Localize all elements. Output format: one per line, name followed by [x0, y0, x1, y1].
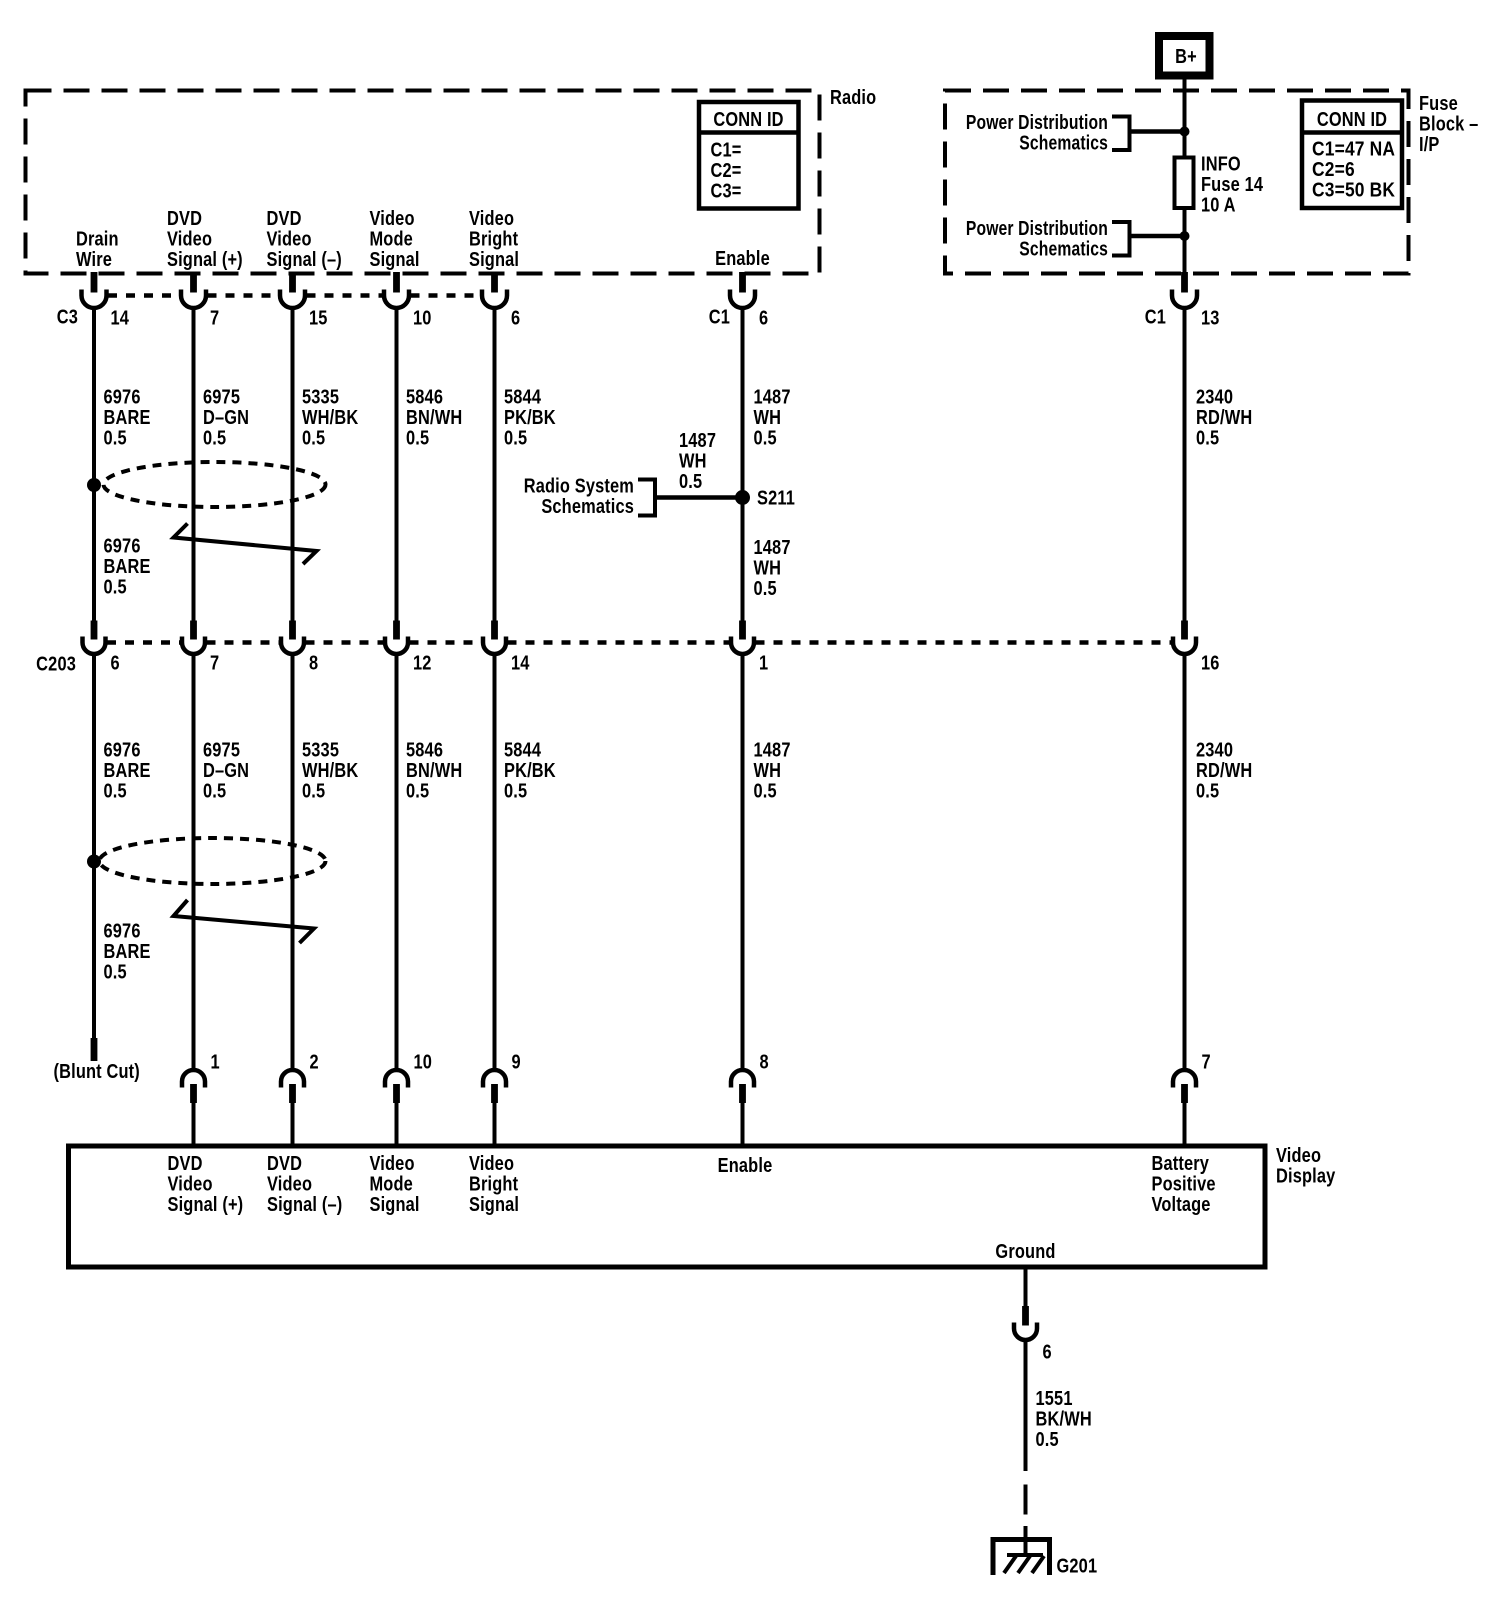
- fuse INFO Fuse 14 10 A: [1175, 152, 1264, 216]
- ground symbol G201: [993, 1540, 1050, 1576]
- wire into video display (pin 8): [741, 1103, 745, 1148]
- wire battery feed from B+: [1183, 78, 1187, 157]
- svg-text:14: 14: [111, 306, 130, 329]
- wire 5844 PK/BK (lower run): [493, 655, 497, 1069]
- power symbol B+: [1159, 36, 1210, 76]
- connector ground pin 6: [1022, 1306, 1029, 1326]
- svg-text:Signal (+): Signal (+): [168, 1192, 244, 1215]
- connector C203 pin 16: [1181, 621, 1188, 640]
- connector C3 pin 15 (dvd-): [289, 272, 296, 293]
- svg-text:Signal: Signal: [370, 1192, 420, 1215]
- connector video display pin 9: [483, 1070, 506, 1088]
- svg-text:0.5: 0.5: [754, 779, 777, 802]
- svg-text:0.5: 0.5: [754, 426, 777, 449]
- svg-text:Signal (–): Signal (–): [267, 247, 342, 270]
- svg-text:0.5: 0.5: [754, 576, 777, 599]
- svg-text:Enable: Enable: [715, 246, 770, 269]
- wire 2340 RD/WH battery (lower run): [1183, 655, 1187, 1069]
- component box Video Display: [69, 1146, 1266, 1267]
- ground wire from video display: [1024, 1267, 1028, 1307]
- svg-text:8: 8: [309, 651, 318, 674]
- svg-text:7: 7: [1202, 1050, 1211, 1073]
- wire 5844 PK/BK (upper run): [493, 309, 497, 622]
- svg-text:16: 16: [1201, 651, 1220, 674]
- connector C3 pin 7 (dvd+): [190, 272, 197, 293]
- svg-text:1: 1: [211, 1050, 220, 1073]
- svg-text:10 A: 10 A: [1201, 193, 1236, 216]
- shield arrow (lower): [174, 900, 315, 943]
- svg-text:Signal (+): Signal (+): [167, 247, 243, 270]
- svg-text:Display: Display: [1276, 1164, 1336, 1187]
- connector C203 pin 12: [393, 621, 400, 640]
- connector C3 pin 6 (bright): [491, 272, 498, 293]
- wire into video display (pin 1): [192, 1103, 196, 1148]
- svg-text:1: 1: [759, 651, 768, 674]
- svg-text:S211: S211: [757, 486, 795, 509]
- svg-text:B+: B+: [1175, 44, 1197, 67]
- CONN ID table (Fuse Block): [1302, 101, 1402, 209]
- connector C203 pin 1: [739, 621, 746, 640]
- svg-text:0.5: 0.5: [302, 779, 325, 802]
- CONN ID table (Radio): [699, 102, 799, 209]
- svg-text:Schematics: Schematics: [541, 494, 634, 517]
- wire 5335 WH/BK (lower run): [291, 655, 295, 1069]
- svg-text:0.5: 0.5: [104, 426, 127, 449]
- wire 1487 WH enable (upper run): [741, 309, 745, 622]
- svg-text:6: 6: [111, 651, 120, 674]
- component box Radio: [26, 91, 820, 274]
- pin numbers C3 row: [111, 306, 521, 329]
- wire into video display (pin 7): [1183, 1103, 1187, 1148]
- svg-text:Schematics: Schematics: [1019, 131, 1108, 155]
- wire to S-point (lower): [1130, 234, 1185, 239]
- svg-text:0.5: 0.5: [104, 960, 127, 983]
- svg-text:0.5: 0.5: [504, 426, 527, 449]
- wire 1551 BK/WH: [1024, 1342, 1028, 1472]
- connector video display pin 1: [182, 1070, 205, 1088]
- connector C203 pin 7: [190, 621, 197, 640]
- connector chain C3: [108, 293, 180, 298]
- connector chain C203: [107, 640, 181, 645]
- wire 5335 WH/BK (upper run): [291, 309, 295, 622]
- svg-text:C1=47 NA: C1=47 NA: [1312, 138, 1395, 161]
- junction drain/shield (lower): [87, 855, 101, 869]
- drain wire 6976 BARE (lower run, blunt cut): [92, 655, 96, 1038]
- connector video display pin 7: [1173, 1070, 1196, 1088]
- svg-text:6: 6: [759, 306, 768, 329]
- svg-text:Signal: Signal: [469, 247, 519, 270]
- wire between fuse and C1 connector: [1183, 209, 1187, 272]
- svg-text:0.5: 0.5: [406, 779, 429, 802]
- svg-text:Signal (–): Signal (–): [267, 1192, 342, 1215]
- svg-text:0.5: 0.5: [203, 779, 226, 802]
- wire 5846 BN/WH (lower run): [395, 655, 399, 1069]
- svg-text:Radio: Radio: [830, 85, 876, 108]
- pin numbers C203 row: [111, 651, 1220, 674]
- svg-text:0.5: 0.5: [1196, 426, 1219, 449]
- svg-text:Voltage: Voltage: [1152, 1192, 1211, 1215]
- connector video display pin 10: [385, 1070, 408, 1088]
- svg-text:9: 9: [512, 1050, 521, 1073]
- wire to splice S211: [655, 495, 743, 500]
- shield ellipse (lower): [100, 838, 326, 884]
- splice S211: [735, 490, 750, 505]
- svg-text:14: 14: [511, 651, 530, 674]
- svg-text:7: 7: [210, 651, 219, 674]
- svg-text:8: 8: [760, 1050, 769, 1073]
- svg-text:C3: C3: [57, 305, 78, 328]
- wire 6975 D-GN (upper run): [192, 309, 196, 622]
- svg-text:Schematics: Schematics: [1019, 237, 1108, 261]
- svg-text:0.5: 0.5: [104, 779, 127, 802]
- note Power Distribution Schematics (lower): [966, 216, 1130, 260]
- svg-text:CONN ID: CONN ID: [713, 107, 783, 130]
- pin numbers video display row: [211, 1050, 1211, 1073]
- connector C203 pin 8: [289, 621, 296, 640]
- svg-text:I/P: I/P: [1419, 132, 1440, 155]
- svg-text:0.5: 0.5: [679, 469, 702, 492]
- wire 6975 D-GN (lower run): [192, 655, 196, 1069]
- wire 5846 BN/WH (upper run): [395, 309, 399, 622]
- svg-text:Signal: Signal: [370, 247, 420, 270]
- component box Fuse Block - I/P: [945, 91, 1409, 274]
- junction (upper power distribution): [1180, 127, 1190, 137]
- svg-text:0.5: 0.5: [1196, 779, 1219, 802]
- svg-text:15: 15: [309, 306, 328, 329]
- svg-text:C2=6: C2=6: [1312, 159, 1355, 182]
- note Radio System Schematics: [524, 474, 655, 518]
- wire into video display (pin 10): [395, 1103, 399, 1148]
- connector C3 pin 14 (drain): [91, 272, 98, 293]
- svg-text:10: 10: [413, 306, 432, 329]
- svg-text:(Blunt Cut): (Blunt Cut): [54, 1059, 140, 1082]
- wire 1551 continuation (dashed): [1024, 1485, 1028, 1515]
- svg-text:0.5: 0.5: [1036, 1427, 1059, 1450]
- junction (lower power distribution): [1180, 231, 1190, 241]
- wire into ground symbol: [1024, 1526, 1028, 1556]
- svg-text:13: 13: [1201, 306, 1220, 329]
- svg-text:12: 12: [413, 651, 432, 674]
- wire into video display (pin 9): [493, 1103, 497, 1148]
- svg-text:0.5: 0.5: [203, 426, 226, 449]
- svg-text:0.5: 0.5: [504, 779, 527, 802]
- svg-text:0.5: 0.5: [302, 426, 325, 449]
- junction drain/shield (upper): [87, 478, 101, 492]
- svg-text:C203: C203: [36, 652, 76, 675]
- connector C1 fuse block pin 13: [1181, 272, 1188, 293]
- shield ellipse (upper): [104, 462, 326, 507]
- connector C1 radio pin 6 (enable): [739, 272, 746, 293]
- connector C203 pin 6: [91, 621, 98, 640]
- svg-text:6: 6: [511, 306, 520, 329]
- svg-text:10: 10: [414, 1050, 433, 1073]
- connector video display pin 2: [281, 1070, 304, 1088]
- svg-text:C1: C1: [709, 305, 730, 328]
- connector C203 pin 14: [491, 621, 498, 640]
- svg-text:C3=50 BK: C3=50 BK: [1312, 179, 1395, 202]
- shield arrow (upper): [174, 524, 317, 565]
- svg-text:Enable: Enable: [718, 1153, 773, 1176]
- svg-text:2: 2: [310, 1050, 319, 1073]
- svg-text:0.5: 0.5: [406, 426, 429, 449]
- wire into video display (pin 2): [291, 1103, 295, 1148]
- note Power Distribution Schematics (upper): [966, 110, 1130, 154]
- svg-text:C1: C1: [1145, 305, 1166, 328]
- wire 2340 RD/WH battery (upper run): [1183, 309, 1187, 622]
- connector C3 pin 10 (mode): [393, 272, 400, 293]
- svg-text:G201: G201: [1057, 1554, 1098, 1577]
- svg-text:Wire: Wire: [76, 247, 112, 270]
- connector video display pin 8: [731, 1070, 754, 1087]
- blunt cut end of drain wire: [91, 1038, 98, 1061]
- drain wire 6976 BARE (upper run): [92, 309, 96, 622]
- wire to S-point (upper): [1130, 129, 1185, 134]
- wire 1487 WH enable (lower run): [741, 655, 745, 1069]
- svg-text:Signal: Signal: [469, 1192, 519, 1215]
- svg-text:7: 7: [210, 306, 219, 329]
- svg-text:Ground: Ground: [995, 1239, 1055, 1262]
- svg-text:C3=: C3=: [711, 179, 742, 202]
- svg-text:0.5: 0.5: [104, 575, 127, 598]
- svg-text:6: 6: [1043, 1340, 1052, 1363]
- svg-text:CONN ID: CONN ID: [1317, 107, 1387, 130]
